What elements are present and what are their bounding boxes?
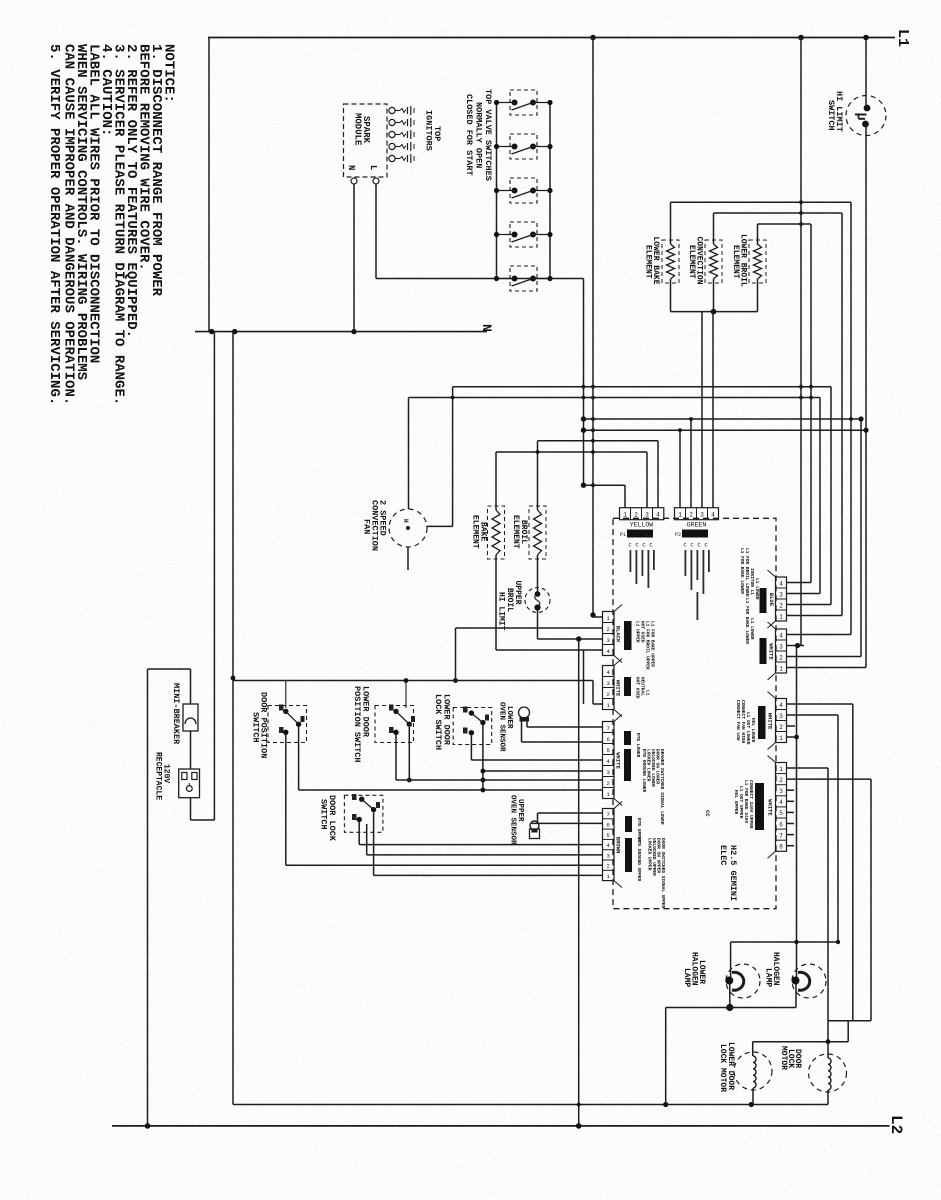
top valve switch 2 box: [510, 134, 537, 159]
lower oven sensor symbol: [519, 707, 530, 718]
wire receptacle to neutral: [213, 332, 215, 820]
wire white9 p3 to lamps: [787, 714, 839, 716]
connector P8 BROWN (upper oven): [603, 809, 615, 881]
lower door lock motor coil: [753, 1056, 756, 1088]
wire feed lower dps: [405, 681, 407, 709]
junction dots bus 5: [494, 276, 499, 281]
P7 header bar: [624, 731, 631, 745]
connector P4 BLACK: [603, 612, 615, 656]
wire E1 feed drop V851: [850, 202, 852, 634]
wire fan line A: [453, 386, 831, 388]
wire lower bake element top: [670, 202, 672, 244]
wire ldls com down: [482, 725, 484, 790]
top valve switch 5 blade: [512, 279, 534, 287]
white10 pin stubs: [787, 789, 795, 791]
halogen lamp filament: [792, 977, 800, 985]
wire fan low feed V820: [819, 398, 821, 594]
spark module terminal L: [373, 178, 379, 184]
wire upper broil top feed: [537, 441, 539, 510]
wire relay bus V801: [800, 38, 802, 646]
connector P6 WHITE: [776, 629, 787, 673]
H2.5 GEMINI ELEC control board box: [613, 518, 776, 908]
junction dot V583 pickup3: [581, 483, 586, 488]
motor feed wire: [753, 1041, 849, 1043]
junction dots bus 4: [494, 232, 499, 237]
wire stub right 2: [533, 146, 550, 148]
wire hi limit to black p3: [537, 608, 539, 640]
junction dot motor feed: [826, 1039, 831, 1044]
junction dot V583 pickup1: [581, 416, 586, 421]
junction dot p2 drop: [453, 678, 458, 683]
wire green p2 feed: [690, 419, 692, 508]
P1 board header bar: [627, 530, 653, 538]
junction dot hi-limit/L1 pickup line: [863, 428, 868, 433]
neutral bus wire N: [195, 331, 487, 333]
wire spark L down: [375, 184, 377, 279]
wire L1 pickup V861: [860, 419, 862, 657]
junction dot ldps com: [407, 778, 412, 783]
junction dots bus 1: [494, 100, 499, 105]
junction dot V593 black p1: [590, 612, 595, 617]
crossing dots on relay feeds: [799, 200, 803, 204]
junction dot neutral top: [231, 676, 236, 681]
crossing dots fan lines / center verticals: [582, 385, 586, 389]
P3 header bar: [624, 677, 631, 696]
wire stub left 1: [497, 102, 515, 104]
wire lamp feed V797: [796, 646, 798, 978]
lower halogen lamp filament: [725, 977, 733, 985]
wire stub right 3: [533, 190, 550, 192]
wire ldps bottom down: [395, 735, 397, 780]
wire fan top feed: [408, 398, 410, 510]
junction dot V583 pickup2: [581, 428, 586, 433]
crossing dot return/lamp bus: [577, 1103, 581, 1107]
junction dots bus 3: [494, 188, 499, 193]
wire lamp1 top: [730, 942, 732, 977]
wire stub black p1: [593, 616, 603, 618]
wire spark L to valve switches: [376, 278, 550, 280]
upper broil hi limit blade: [535, 594, 540, 608]
wire lower sensor to p7: [526, 721, 528, 727]
wire receptacle bottom: [190, 798, 192, 820]
P1 pin label smudges: [630, 550, 632, 572]
valve switch right bus wire: [549, 103, 551, 279]
junction dot N left: [209, 329, 214, 334]
P2 extra smudge: [697, 592, 699, 620]
wire lamp1 bottom: [729, 984, 731, 1008]
upper bake element: [492, 510, 500, 555]
L2 bus wire (bottom): [112, 1125, 890, 1127]
junction dot ldls/790: [481, 788, 486, 793]
wire blue p4 stub: [787, 615, 843, 617]
top valve switch 4 contacts: [512, 232, 518, 238]
junction dot ldls/780: [481, 778, 486, 783]
lamp feed wire: [731, 941, 838, 943]
wire dps com down: [298, 727, 300, 790]
wire E2 feed drop V842: [841, 213, 843, 616]
door lock motor circle: [809, 1054, 847, 1092]
junction dot lamp feed / white9 p1: [794, 735, 799, 740]
crossing dots green feeds: [678, 428, 682, 432]
wire black p2 to door feed: [456, 627, 603, 629]
wire door motor bottom: [827, 1090, 829, 1105]
P2 board header bar: [682, 530, 708, 538]
wire blue p2 stub: [787, 593, 821, 595]
wire upper bake bottom to black p4: [495, 555, 497, 650]
neutral feed wire to switches: [233, 680, 593, 682]
top valve switch 1 blade: [512, 103, 534, 111]
ignitor 2: [389, 119, 395, 125]
lower door lock switch label smudges: [463, 707, 468, 713]
junction dot ldls 771: [481, 769, 486, 774]
wire stub left 2: [497, 146, 515, 148]
mini breaker symbol: [183, 704, 198, 731]
wire E3 feed drop V811: [810, 224, 812, 583]
junction dot board return branch: [576, 636, 581, 641]
connector P1 YELLOW: [620, 508, 664, 520]
P6 header bar: [760, 638, 767, 664]
wire hi limit down to relay connector: [865, 124, 867, 668]
junction dot L1/relay bus: [798, 35, 804, 41]
lower door lock switch box: [453, 708, 492, 745]
wire white9 p4 long stub: [787, 703, 853, 705]
connector P5 BLUE: [776, 577, 787, 621]
wire to white7 p2: [396, 779, 603, 781]
wire breaker branch left: [147, 669, 149, 1126]
wire feed door position switch: [285, 681, 287, 709]
connector P2 GREEN: [675, 508, 719, 520]
junction dots bus 2: [494, 144, 499, 149]
junction dot door position feed: [404, 678, 409, 683]
junction dot L1/board feed: [590, 35, 596, 41]
upper broil hi limit contacts: [535, 591, 541, 597]
wire convection element top: [713, 213, 715, 244]
junction dot lamp feed: [794, 940, 798, 944]
wire L1 to hi limit: [865, 38, 867, 109]
P4 header bar: [624, 621, 632, 650]
crossing dots upper feeds: [536, 450, 540, 454]
wire upper sensor to brown p6: [531, 822, 533, 824]
wire breaker top: [190, 669, 192, 704]
wire dps com to white7 p1: [299, 789, 603, 791]
top valve switch 2 contacts: [512, 144, 518, 150]
ignitor 4: [389, 143, 395, 149]
wire blue p1 stub: [787, 582, 812, 584]
valve switch left bus wire: [496, 103, 498, 279]
wire main L1 board feed V593: [592, 38, 594, 618]
top valve switch 1 contacts: [512, 100, 518, 106]
wire blue p3 stub: [787, 604, 832, 606]
hi limit contacts: [864, 105, 871, 112]
top valve switch 3 box: [510, 178, 537, 203]
wire fan line B: [409, 397, 821, 399]
top valve switch 2 blade: [512, 147, 534, 155]
wire stub left 4: [497, 234, 515, 236]
wire dps bottom to brown p2: [286, 864, 603, 866]
wire convection element bottom: [713, 279, 715, 312]
ignitor 1: [389, 107, 395, 113]
wire N drop to return bus: [232, 332, 234, 1105]
wire element bottoms: [670, 279, 672, 312]
wire white6 p3 stub: [787, 645, 805, 647]
upper broil hi limit circle: [525, 588, 550, 613]
door position switch box: [268, 706, 307, 743]
top valve switch 5 contacts: [512, 276, 518, 282]
connector P9 WHITE: [776, 699, 787, 743]
wire white10 p2 drop: [787, 778, 872, 780]
door lock switch box: [344, 795, 383, 832]
wire white9 p2 stub: [787, 725, 796, 727]
wire black p4 link down: [583, 650, 585, 704]
wire fan high feed V831: [830, 387, 832, 605]
wire L1 left drop: [208, 38, 210, 332]
wire ldps com down: [408, 727, 410, 780]
junction dot N spark module: [351, 329, 356, 334]
door position switch label smudges: [279, 705, 284, 711]
wire ldls com to white7 p3: [483, 770, 603, 772]
wire L1 pickup line py430: [584, 429, 867, 431]
wire lower motor top: [752, 1042, 754, 1056]
wire dls com to brown p1: [373, 812, 375, 875]
wire neutral to white p1: [592, 681, 594, 705]
wire element return to green connector p3: [701, 312, 703, 508]
junction dot V861 top: [858, 416, 863, 421]
wire lower sensor to p6: [521, 721, 523, 742]
lower door lock motor circle: [734, 1052, 772, 1090]
junction dot element return: [711, 309, 717, 315]
wire stub right 5: [533, 278, 550, 280]
wire motor feed drop: [847, 1021, 849, 1042]
fan center mark: [406, 526, 410, 530]
receptacle ground: [186, 786, 192, 792]
wire upper bake top feed: [495, 452, 497, 510]
wire white6 p1 stub: [787, 667, 867, 669]
connector P3 WHITE: [603, 666, 615, 710]
junction dot return/lamp branch: [663, 1102, 668, 1107]
top valve switch 4 blade: [512, 235, 534, 243]
junction dot return/lower motor: [749, 1102, 754, 1107]
lower bake element: [667, 244, 675, 279]
wire ldls bottom to white7 p4: [470, 735, 472, 760]
wire dls bottom to brown p4: [358, 822, 360, 845]
top valve switch 3 blade: [512, 191, 534, 199]
junction dot L2 breaker: [145, 1123, 151, 1129]
hi limit blade: [855, 114, 867, 116]
wire white10 p1 to motors: [787, 767, 829, 769]
wire spark N to neutral bus: [353, 184, 355, 332]
wire L1 pickup line py419: [584, 418, 862, 420]
P5 header bar: [760, 588, 767, 613]
lower door position switch label smudges: [389, 705, 394, 711]
upper broil element: [534, 510, 542, 555]
junction dot lamp1 bottom: [726, 1004, 733, 1011]
top valve switch 1 box: [510, 90, 537, 115]
junction dot white6 p3 / lamp feed: [795, 643, 800, 648]
connector corner dashes: [768, 570, 776, 577]
wire fan bottom stub: [407, 547, 409, 570]
wire breaker to receptacle: [190, 731, 192, 769]
hi limit switch circle: [846, 96, 886, 136]
crossing dots py419/430 on V593: [591, 417, 595, 421]
door lock motor coil: [828, 1058, 831, 1090]
wire link bar py1021: [828, 1020, 871, 1022]
wire upper sensor to brown p7: [537, 813, 539, 823]
receptacle slots: [182, 773, 187, 780]
door lock switch label smudges: [352, 794, 357, 800]
wire white9 p1 stub: [787, 736, 797, 738]
top valve switch 5 box: [510, 266, 537, 291]
120V receptacle box: [179, 769, 200, 798]
lamp bottom wire: [666, 1007, 796, 1009]
wire lower motor bottom: [752, 1088, 754, 1105]
wire lower broil element top: [757, 224, 759, 245]
wire stub right 1: [533, 102, 550, 104]
wire yellow p1 feed: [584, 484, 626, 486]
top valve switch 3 contacts: [512, 188, 518, 194]
lower door position switch box: [375, 706, 414, 743]
lower broil element: [754, 244, 762, 279]
wire dps bottom down: [285, 735, 287, 865]
wire valve switches output down: [550, 278, 584, 280]
wire lamp2 bottom: [795, 984, 797, 1008]
P8 header bar: [625, 816, 632, 832]
wire board return to L2: [578, 639, 580, 1126]
wire lamp return drop: [665, 1008, 667, 1105]
ignitor 5: [389, 155, 395, 161]
wire stub left 5: [497, 278, 515, 280]
wire broil to hi limit: [537, 555, 539, 594]
junction dot N breaker branch: [232, 329, 237, 334]
top valve switch 4 box: [510, 222, 537, 247]
P2 pin label smudges: [685, 550, 687, 576]
spark module terminal N: [351, 178, 357, 184]
wire white9 p4 drop: [852, 704, 854, 1021]
2 speed convection fan circle: [389, 509, 427, 547]
spark module box: [344, 104, 388, 177]
lower halogen lamp circle: [726, 964, 760, 998]
halogen lamp circle: [792, 964, 826, 998]
P10 header bar: [755, 783, 764, 830]
convection element: [710, 244, 718, 279]
wire dls mid to brown p3: [366, 824, 368, 855]
connector P10 WHITE (8 pin): [776, 763, 787, 852]
wire white6 p4 stub: [787, 634, 852, 636]
junction dot L1/hi-limit: [863, 35, 869, 41]
P9 header bar: [758, 706, 766, 739]
wire stub left 3: [497, 190, 515, 192]
wire white6 p2 stub: [787, 656, 862, 658]
wire stub right 4: [533, 234, 550, 236]
ignitor 3: [389, 131, 395, 137]
junction dot L2 board return: [576, 1123, 582, 1129]
wire green p1 feed: [583, 429, 585, 431]
lamp-motor return bus wire: [233, 1104, 828, 1106]
wire fan right feed: [427, 525, 453, 527]
upper oven sensor symbol: [530, 821, 539, 830]
L1 bus wire (top): [208, 37, 895, 39]
wire element return to green connector p4: [712, 312, 714, 508]
connector P7 WHITE (lower oven): [603, 722, 615, 799]
